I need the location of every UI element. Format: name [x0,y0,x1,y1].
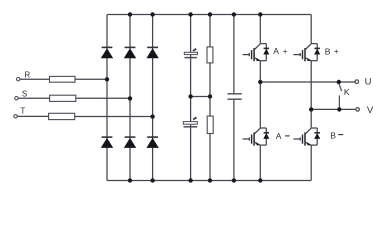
svg-text:A: A [276,131,282,141]
transistor B+ (IGBT upper right) [293,44,320,62]
node top bus / leg3 [150,12,154,16]
fuse FU2 (phase S) [50,95,76,101]
diode D4 (bottom, leg 1) [101,137,113,148]
terminal U [355,80,359,84]
svg-text:A: A [273,46,279,56]
svg-text:+: + [334,46,339,56]
switch K [339,83,342,109]
svg-text:B: B [325,47,331,57]
node V row / leg B [309,107,313,111]
svg-text:S: S [22,90,27,99]
node RC link right [208,94,212,98]
capacitor C1 (electrolytic, upper) [184,49,197,58]
terminal V [356,108,360,112]
node phase R junction [105,77,109,81]
wire inverter leg B [310,15,312,181]
node V row / switch K [337,107,341,111]
wire rectifier leg 1 [106,15,108,181]
wire phase S input [18,97,130,99]
fuse FU1 (phase R) [50,76,76,82]
resistor R2 (lower) [207,116,213,133]
svg-text:R: R [24,71,30,80]
wire rectifier leg 2 [129,15,131,181]
capacitor C3 (DC-link) [228,94,242,99]
node bottom bus / R column [208,178,212,182]
svg-text:B: B [330,130,336,140]
node U row / leg A [258,80,262,84]
svg-text:T: T [20,106,25,115]
wire top DC bus [107,14,311,16]
diode D3 (top, leg 3) [146,47,158,58]
terminal T [14,115,17,118]
node top bus / leg A [258,12,262,16]
wire bottom DC bus [107,180,311,182]
fuse FU3 (phase T) [49,113,75,119]
transistor A+ (IGBT upper left) [242,44,269,62]
node bottom bus / leg A [258,178,262,182]
terminal S [15,97,18,100]
svg-text:U: U [365,77,372,88]
wire filter resistor column [209,15,211,181]
terminal R [17,78,20,81]
node RC link left [188,94,192,98]
transistor B- (IGBT lower right) [293,128,320,146]
node top bus / C column [188,12,192,16]
wire rectifier leg 3 [152,15,154,181]
node U row / switch K [337,80,341,84]
wire output U [260,81,356,83]
diode D1 (top, leg 1) [101,47,113,58]
wire main capacitor column [233,15,235,181]
svg-text:+: + [283,46,288,56]
capacitor C2 (electrolytic, lower) [183,117,197,126]
wire phase R input [20,78,107,80]
diode D5 (bottom, leg 2) [124,137,136,148]
node phase T junction [150,114,154,118]
diode D2 (top, leg 2) [124,47,136,58]
diode D6 (bottom, leg 3) [146,137,158,148]
node top bus / R column [208,12,212,16]
node phase S junction [128,96,132,100]
wire filter capacitor column [190,15,192,181]
node top bus / leg2 [128,12,132,16]
node bottom bus / C3 [232,178,236,182]
wire RC midpoint link [191,96,210,98]
svg-text:K: K [344,87,350,97]
wire output V [311,108,356,110]
wire inverter leg A [259,15,261,181]
node bottom bus / leg2 [128,178,132,182]
wire phase T input [17,115,153,117]
node top bus / C3 [232,12,236,16]
node bottom bus / leg3 [150,178,154,182]
transistor A- (IGBT lower left) [242,128,269,146]
svg-text:V: V [367,105,374,116]
node bottom bus / C column [188,178,192,182]
resistor R1 (upper) [207,47,213,63]
